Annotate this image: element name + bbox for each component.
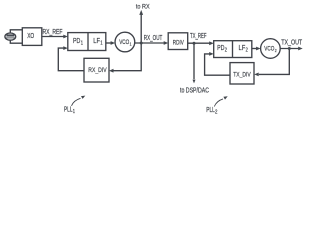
wire TX_DIV to PD2 feedback — [205, 54, 230, 75]
svg-text:to DSP/DAC: to DSP/DAC — [180, 88, 209, 95]
svg-text:to RX: to RX — [136, 3, 150, 10]
svg-text:RDIV: RDIV — [173, 39, 185, 46]
arrowhead PLL2 callout — [223, 96, 227, 99]
wire RX_DIV to PD1 feedback — [58, 48, 84, 71]
arrowhead into PD2 feedback input — [209, 52, 214, 56]
wire RX feedback down to RX_DIV — [113, 43, 141, 71]
svg-text:PD: PD — [217, 45, 224, 52]
svg-text:PLL: PLL — [206, 107, 215, 114]
arrowhead into PD2 top input — [209, 41, 214, 45]
wire VCO2 to TX_OUT — [280, 48, 298, 50]
divider PD2|LF2 — [232, 41, 234, 58]
svg-text:1: 1 — [130, 42, 132, 47]
svg-text:RX_OUT: RX_OUT — [144, 35, 163, 42]
arrowhead into RX_DIV — [109, 69, 114, 73]
wire VCO1 to RDIV (RX_OUT) — [135, 42, 164, 44]
svg-text:TX_REF: TX_REF — [190, 33, 207, 40]
wire to DSP/DAC (down) — [193, 43, 195, 79]
svg-text:RX_DIV: RX_DIV — [88, 67, 107, 74]
svg-text:1: 1 — [100, 41, 102, 47]
block RX_DIV — [84, 58, 109, 82]
wire crystal bottom to XO — [10, 40, 22, 43]
arrowhead into RDIV — [164, 41, 169, 45]
svg-text:LF: LF — [239, 45, 246, 52]
svg-text:TX_OUT: TX_OUT — [281, 40, 303, 47]
divider PD1|LF1 — [87, 33, 89, 51]
svg-text:2: 2 — [246, 48, 248, 54]
block TX_DIV — [230, 63, 254, 84]
wire TX feedback down to TX_DIV — [259, 49, 290, 75]
wire crystal top to XO — [10, 30, 22, 33]
svg-text:VCO: VCO — [119, 39, 129, 46]
crystal Y1 — [5, 33, 16, 40]
junction node at TX branch — [288, 47, 291, 50]
arrowhead to RX (up) — [139, 10, 143, 15]
wire to RX (up) — [140, 15, 142, 44]
wire LF1 to VCO1 — [106, 42, 111, 44]
block PD1/LF1 — [68, 33, 106, 51]
svg-text:2: 2 — [215, 110, 218, 116]
VCO1 circle — [115, 32, 135, 52]
block RDIV — [168, 33, 188, 50]
svg-text:1: 1 — [73, 109, 75, 115]
arrowhead into PD1 top input — [63, 35, 68, 39]
junction node at RX branch — [140, 42, 143, 45]
arrow PLL2 callout curve — [214, 99, 223, 107]
svg-text:2: 2 — [225, 48, 227, 54]
svg-text:VCO: VCO — [264, 46, 274, 53]
svg-text:TX_DIV: TX_DIV — [233, 71, 251, 78]
arrowhead PLL1 callout — [81, 96, 85, 99]
block XO — [22, 28, 42, 46]
arrowhead into VCO2 — [256, 47, 261, 51]
VCO2 circle — [261, 39, 281, 59]
svg-text:1: 1 — [81, 41, 83, 47]
arrowhead TX_OUT (right) — [298, 47, 303, 51]
svg-text:RX_REF: RX_REF — [43, 29, 63, 36]
arrow PLL1 callout curve — [72, 98, 81, 106]
svg-text:2: 2 — [275, 48, 277, 53]
arrowhead into PD1 feedback input — [63, 46, 68, 50]
svg-text:LF: LF — [93, 38, 100, 45]
svg-text:PLL: PLL — [64, 106, 73, 113]
wire XO to PD1 (RX_REF) — [42, 36, 64, 38]
arrowhead into TX_DIV — [254, 73, 259, 77]
svg-text:PD: PD — [73, 38, 80, 45]
arrowhead to DSP/DAC (down) — [193, 80, 196, 84]
svg-text:XO: XO — [27, 33, 34, 40]
junction node at DSP branch — [193, 42, 196, 45]
wire RDIV to PD2 (TX_REF) — [188, 42, 210, 44]
block PD2/LF2 — [214, 41, 252, 58]
arrowhead into VCO1 — [111, 41, 116, 45]
wire LF2 to VCO2 — [252, 48, 257, 50]
